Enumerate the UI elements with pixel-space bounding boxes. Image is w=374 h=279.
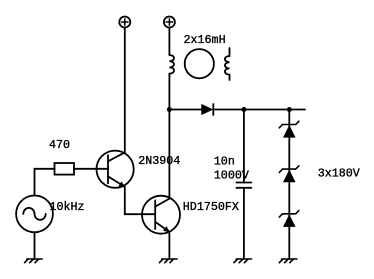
wire: resistor to Q1 base xyxy=(74,168,108,170)
wire: capacitor to ground xyxy=(243,188,245,259)
wire: left supply to Q1 collector xyxy=(124,27,126,152)
supply symbol V+ left xyxy=(119,17,130,28)
inductor L1 winding B (right, floating) xyxy=(225,48,230,80)
ground (capacitor) xyxy=(234,259,252,263)
zener Z2 xyxy=(279,166,299,182)
ground (zener chain) xyxy=(279,259,297,263)
wire: Q1 emitter down and right to Q2 base xyxy=(125,187,155,214)
zener Z1 xyxy=(279,121,299,137)
diode D1 xyxy=(201,104,213,115)
wire: top rail right segment xyxy=(213,109,305,111)
inductor L1 winding A (left, 2x16mH) xyxy=(169,55,174,74)
wire: inductor bottom to Q2 collector xyxy=(168,74,170,199)
svg-text:1000V: 1000V xyxy=(214,169,249,183)
ground (AC source) xyxy=(25,259,43,263)
svg-text:2N3904: 2N3904 xyxy=(138,154,180,168)
inductor core circle xyxy=(185,49,214,78)
capacitor C1 xyxy=(236,183,251,188)
wire: AC source to ground xyxy=(34,232,36,259)
AC source 10kHz xyxy=(16,196,53,233)
svg-text:10n: 10n xyxy=(214,155,235,169)
svg-text:2x16mH: 2x16mH xyxy=(184,33,226,47)
svg-text:10kHz: 10kHz xyxy=(50,200,85,214)
wire: right supply to inductor top xyxy=(168,27,170,55)
ground (Q2 emitter) xyxy=(159,259,177,263)
node B (capacitor junction) xyxy=(241,107,246,112)
resistor R1 470 xyxy=(55,163,75,175)
wire: node B down to capacitor xyxy=(243,110,245,183)
svg-text:HD1750FX: HD1750FX xyxy=(183,200,239,214)
svg-text:3x180V: 3x180V xyxy=(318,166,360,180)
node C (zener junction) xyxy=(287,107,292,112)
zener Z3 xyxy=(279,211,299,227)
wire: node C down zener chain to ground xyxy=(288,110,290,260)
wire: AC source up and right to resistor xyxy=(35,169,55,196)
svg-text:470: 470 xyxy=(49,138,70,152)
transistor Q1 2N3904 xyxy=(97,151,134,188)
supply symbol V+ right xyxy=(164,17,175,28)
node A (junction supply line / top rail) xyxy=(167,107,172,112)
transistor Q2 HD1750FX xyxy=(142,196,180,234)
wire: top rail left segment xyxy=(169,109,201,111)
wire: Q2 emitter to ground xyxy=(168,232,170,259)
